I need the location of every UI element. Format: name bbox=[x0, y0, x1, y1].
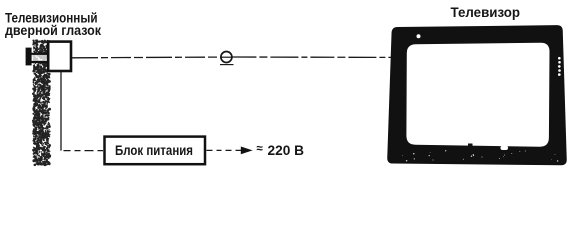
svg-text:≈: ≈ bbox=[257, 143, 264, 155]
svg-text:220 В: 220 В bbox=[268, 143, 305, 158]
svg-text:Блок питания: Блок питания bbox=[115, 143, 193, 158]
svg-text:дверной глазок: дверной глазок bbox=[5, 23, 101, 38]
svg-text:Телевизор: Телевизор bbox=[451, 4, 521, 20]
